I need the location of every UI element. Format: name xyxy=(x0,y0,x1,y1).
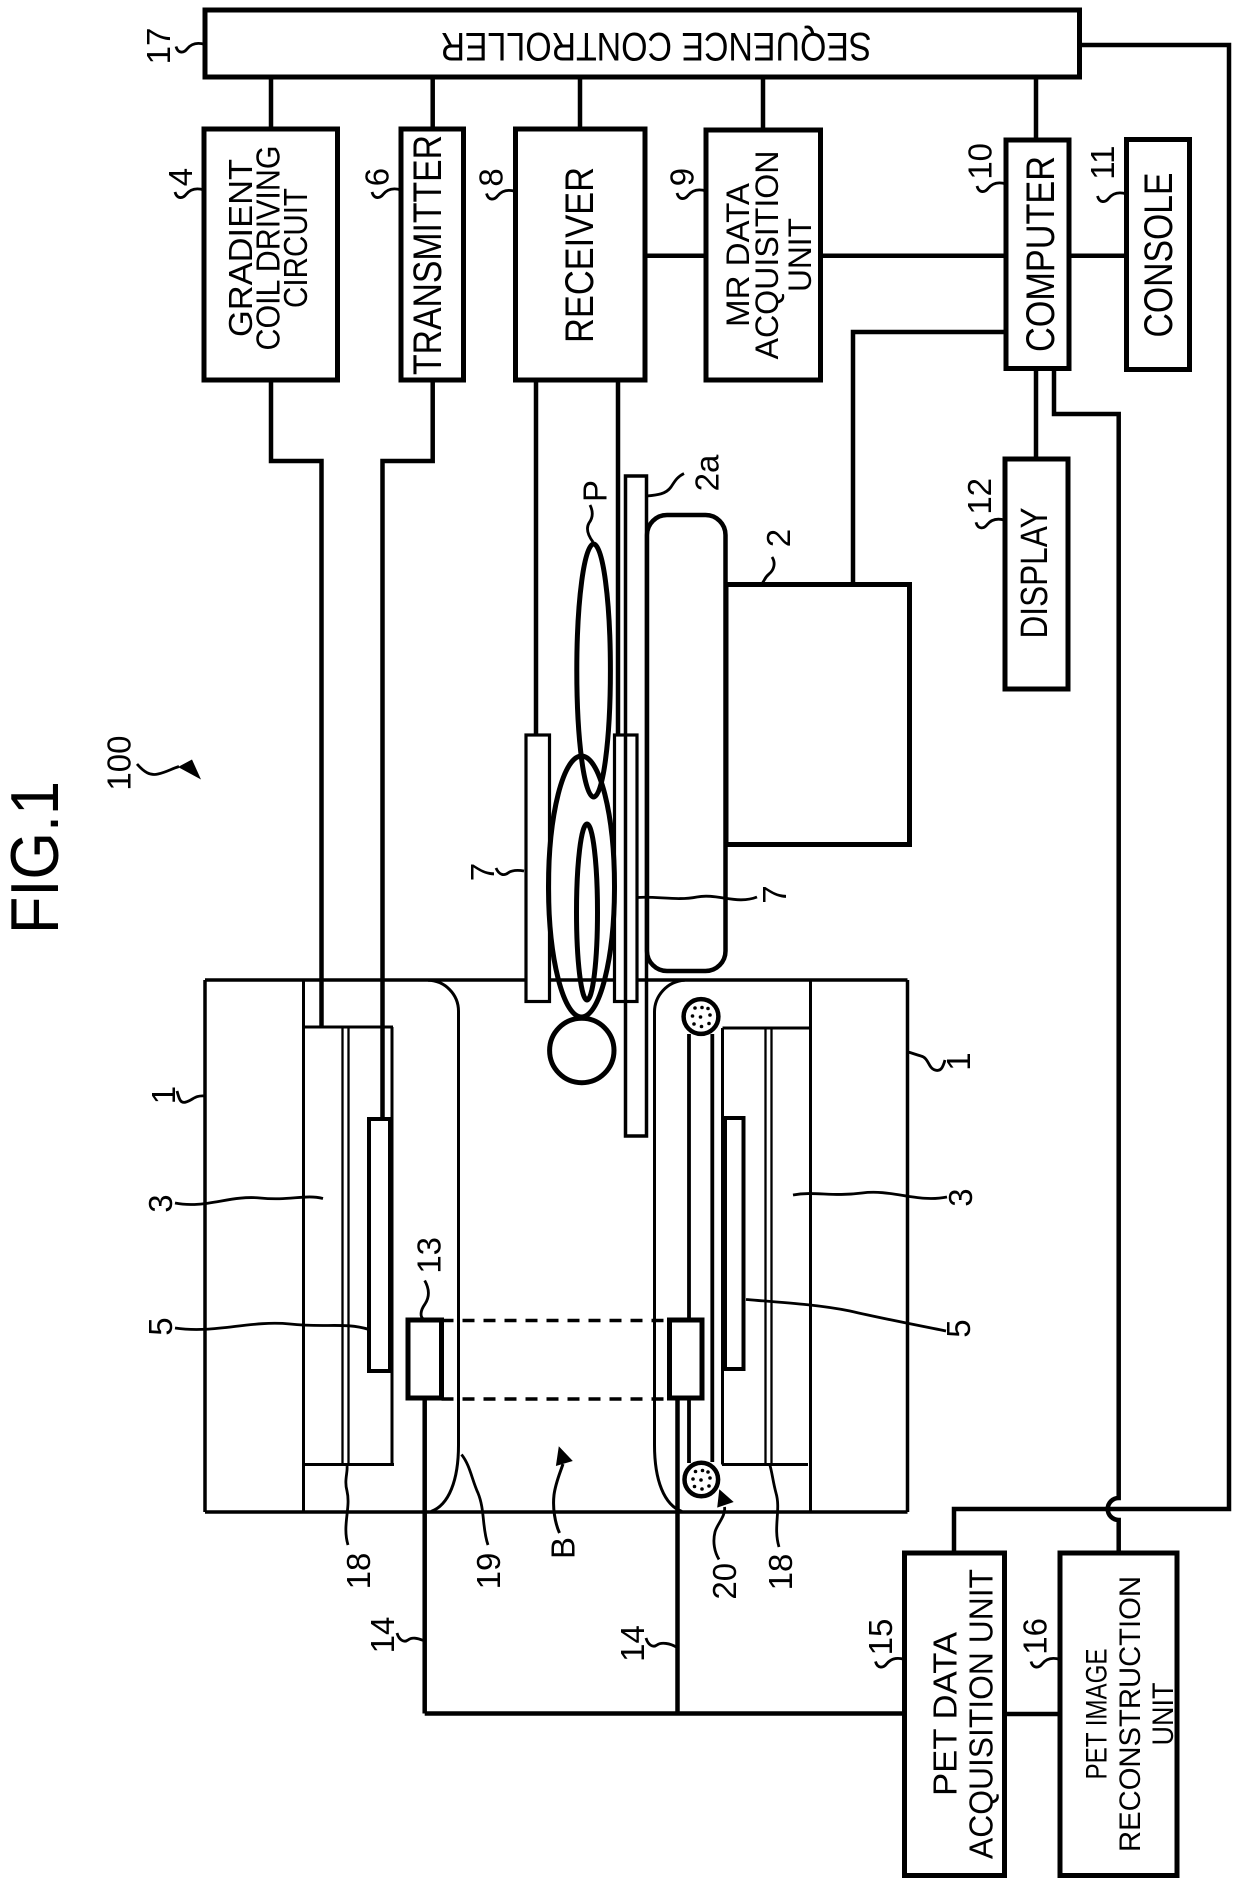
wire receiver to local coil 7 lower xyxy=(616,380,621,735)
svg-text:RECONSTRUCTION: RECONSTRUCTION xyxy=(1114,1576,1147,1852)
lead line 9 xyxy=(677,190,706,199)
svg-text:TRANSMITTER: TRANSMITTER xyxy=(406,135,450,375)
lead line 15 xyxy=(876,1658,905,1667)
svg-text:DISPLAY: DISPLAY xyxy=(1014,508,1056,639)
svg-text:RECEIVER: RECEIVER xyxy=(558,167,602,343)
svg-text:2a: 2a xyxy=(689,454,726,491)
pet detector column lines xyxy=(689,1034,712,1463)
svg-text:CONSOLE: CONSOLE xyxy=(1137,173,1181,338)
patient P head circle xyxy=(550,1018,614,1082)
svg-text:19: 19 xyxy=(470,1553,507,1590)
svg-text:5: 5 xyxy=(142,1317,179,1335)
svg-text:14: 14 xyxy=(614,1625,651,1662)
magnet gantry outer box 1 xyxy=(205,980,908,1512)
rf shield 18 upper pair xyxy=(343,1028,349,1465)
lead line 17 xyxy=(176,43,205,52)
gantry bottom edge (portrait right) xyxy=(906,980,910,1512)
wire receiver to local coil 7 upper xyxy=(534,380,539,735)
pet data acquisition unit box 15 xyxy=(905,1553,1005,1876)
pet cable 14 main run xyxy=(425,1711,905,1716)
console box 11 xyxy=(1127,140,1190,370)
lead line 5 lower xyxy=(746,1300,946,1332)
transmitter box 6 xyxy=(401,129,464,380)
lead line 18 upper xyxy=(346,1466,348,1545)
wire transmitter to rf coil assembly xyxy=(383,380,433,1119)
lead line 11 xyxy=(1098,193,1127,202)
couch body (rounded) xyxy=(647,515,726,971)
svg-text:20: 20 xyxy=(706,1563,743,1600)
svg-text:UNIT: UNIT xyxy=(782,218,818,292)
pet detector 20 top circle xyxy=(684,999,719,1034)
wire mr data unit to computer xyxy=(821,253,1007,258)
svg-text:SEQUENCE CONTROLLER: SEQUENCE CONTROLLER xyxy=(441,24,872,68)
svg-text:3: 3 xyxy=(942,1188,979,1206)
superconducting coil 5 lower xyxy=(725,1118,744,1369)
svg-text:15: 15 xyxy=(862,1619,899,1656)
lead line 7 upper xyxy=(496,868,524,875)
svg-text:6: 6 xyxy=(359,168,396,186)
superconducting coil 5 upper xyxy=(369,1119,390,1371)
wire computer to pet image reconstruction unit with hop xyxy=(1054,369,1119,1554)
lead line P xyxy=(588,505,593,542)
gradient coil driving circuit box 4 xyxy=(204,129,338,380)
patient P arm ellipse xyxy=(577,824,598,1000)
wire sequence controller to mr data unit xyxy=(761,77,766,130)
svg-text:5: 5 xyxy=(940,1319,977,1337)
wire computer to couch 2 xyxy=(853,332,1006,584)
vacuum vessel 19 lower wall with flares xyxy=(654,980,684,1511)
wire receiver to mr data unit xyxy=(645,253,706,258)
lead line 1 lower xyxy=(908,1052,945,1070)
local shim coil 13 lower box xyxy=(670,1320,703,1398)
svg-text:7: 7 xyxy=(756,885,793,903)
svg-text:11: 11 xyxy=(1084,145,1121,179)
gantry outer-bottom edge xyxy=(205,1510,908,1514)
wire computer to console xyxy=(1069,253,1127,258)
svg-text:B: B xyxy=(545,1537,582,1559)
svg-text:13: 13 xyxy=(411,1237,448,1274)
svg-text:2: 2 xyxy=(760,529,797,547)
lead line 16 xyxy=(1031,1658,1060,1667)
patient P legs ellipse xyxy=(577,544,611,797)
svg-text:14: 14 xyxy=(364,1617,401,1654)
lead line 3 lower xyxy=(793,1192,947,1198)
wire pet data unit to pet image unit xyxy=(1005,1712,1061,1717)
lead line 6 xyxy=(372,189,401,198)
arrow B field direction xyxy=(554,1446,573,1533)
svg-text:100: 100 xyxy=(101,736,138,791)
wire gradient box to gradient coil xyxy=(271,380,322,1027)
gradient coil unit 3 upper (portrait left) xyxy=(304,980,395,1512)
local shim coil 13 upper box xyxy=(408,1320,442,1398)
dashed link between shim coils (left) xyxy=(442,1319,670,1323)
couch top plate 2a xyxy=(626,476,647,1136)
svg-text:PET DATA: PET DATA xyxy=(927,1632,964,1796)
svg-text:10: 10 xyxy=(962,143,999,180)
sequence controller box 17 xyxy=(205,10,1080,77)
lead line 2a xyxy=(647,474,685,497)
gantry bore-side edge segments xyxy=(205,978,908,982)
svg-text:18: 18 xyxy=(762,1554,799,1591)
lead line 7 lower xyxy=(637,896,757,900)
lead line 2 xyxy=(761,557,775,585)
lead line 18 lower xyxy=(770,1466,779,1548)
lead line 12 xyxy=(976,519,1005,528)
wire computer to display xyxy=(1034,369,1039,460)
svg-text:1: 1 xyxy=(145,1086,182,1104)
display box 12 xyxy=(1005,459,1068,689)
lead line 8 xyxy=(487,190,516,199)
svg-text:ACQUISITION: ACQUISITION xyxy=(749,151,785,360)
wire sequence controller to receiver xyxy=(578,77,583,129)
svg-text:ACQUISITION UNIT: ACQUISITION UNIT xyxy=(963,1569,1000,1859)
wire sequence controller to computer xyxy=(1034,77,1039,140)
svg-text:CIRCUIT: CIRCUIT xyxy=(277,188,314,308)
svg-text:17: 17 xyxy=(140,28,177,65)
rf shield 18 lower pair xyxy=(766,1028,772,1465)
lead line 4 xyxy=(175,189,204,198)
patient P torso ellipse xyxy=(549,756,615,1017)
svg-text:4: 4 xyxy=(162,168,199,186)
lead line 5 upper xyxy=(175,1323,369,1329)
svg-text:12: 12 xyxy=(961,478,998,515)
arrow 100 xyxy=(137,760,201,780)
svg-text:3: 3 xyxy=(142,1194,179,1212)
rf coil 7 lower rect xyxy=(615,735,638,1002)
gantry top edge (portrait left) xyxy=(203,980,207,1512)
receiver box 8 xyxy=(516,129,646,380)
lead line 14 right xyxy=(646,1638,677,1648)
lead line 14 left xyxy=(397,1633,424,1641)
lead line 10 xyxy=(977,183,1006,192)
pet image reconstruction unit box 16 xyxy=(1060,1553,1177,1876)
couch base 2 xyxy=(726,585,910,845)
svg-text:18: 18 xyxy=(340,1553,377,1590)
lead line 13 xyxy=(421,1281,428,1320)
lead line 1 upper xyxy=(177,1091,205,1102)
svg-text:PET IMAGE: PET IMAGE xyxy=(1081,1649,1114,1780)
arrow 20 xyxy=(714,1489,734,1559)
svg-text:UNIT: UNIT xyxy=(1147,1683,1180,1746)
pet detector 20 bottom circle xyxy=(685,1463,719,1497)
svg-text:8: 8 xyxy=(473,168,510,186)
wire sequence controller to gradient box xyxy=(269,77,274,129)
svg-text:P: P xyxy=(577,480,614,502)
svg-text:COMPUTER: COMPUTER xyxy=(1019,156,1063,352)
mr data acquisition unit box 9 xyxy=(706,130,821,380)
pet cable 14 left branch xyxy=(422,1400,427,1714)
computer box 10 xyxy=(1006,140,1069,369)
pet cable 14 right branch xyxy=(675,1398,680,1714)
wire sequence controller to transmitter xyxy=(430,77,435,129)
rf coil 7 upper rect xyxy=(526,735,550,1002)
svg-text:9: 9 xyxy=(664,168,701,186)
svg-text:16: 16 xyxy=(1017,1618,1054,1655)
gradient coil unit 3 lower (portrait right) xyxy=(722,980,811,1512)
lead line 19 xyxy=(462,1455,489,1546)
wire sequence controller to pet data acquisition unit xyxy=(954,45,1229,1553)
svg-text:7: 7 xyxy=(464,863,501,881)
lead line 3 upper xyxy=(175,1197,323,1205)
vacuum vessel 19 upper wall with flares xyxy=(428,980,459,1511)
svg-text:FIG.1: FIG.1 xyxy=(0,781,73,934)
dashed link between shim coils (right) xyxy=(442,1397,670,1401)
